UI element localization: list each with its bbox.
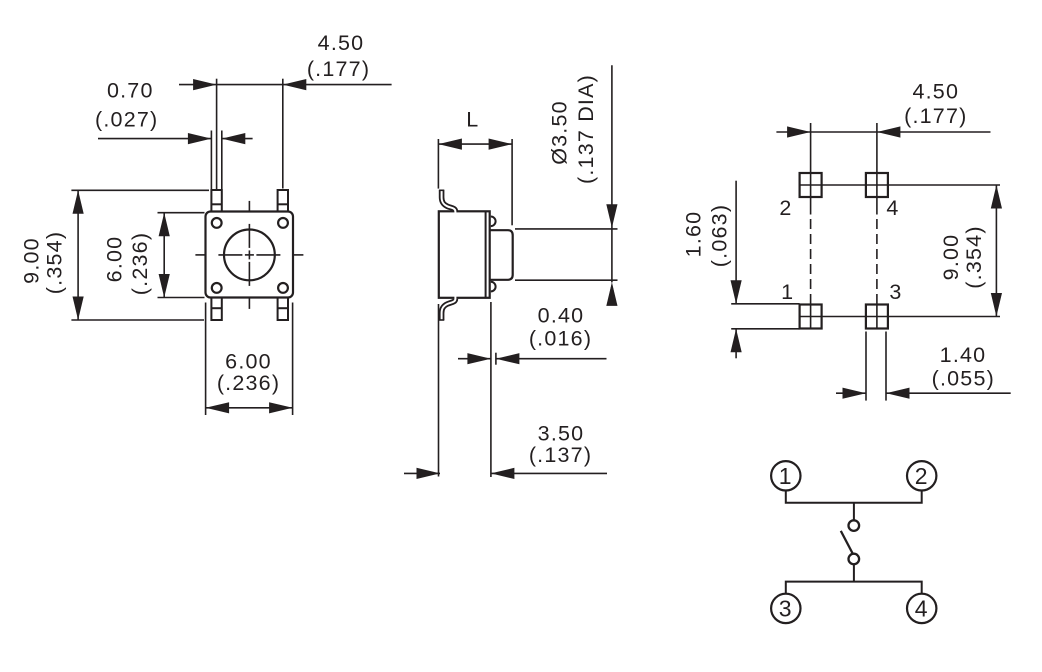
svg-text:(.137): (.137)	[529, 443, 592, 467]
svg-text:4: 4	[915, 596, 929, 622]
svg-text:3.50: 3.50	[538, 422, 585, 446]
svg-text:3: 3	[779, 596, 793, 622]
svg-text:(.236): (.236)	[128, 232, 152, 295]
svg-text:0.40: 0.40	[538, 304, 585, 328]
svg-text:1.60: 1.60	[682, 211, 706, 258]
svg-text:(.354): (.354)	[43, 231, 67, 294]
svg-text:Ø3.50: Ø3.50	[548, 100, 572, 165]
svg-text:1: 1	[779, 463, 793, 489]
svg-text:(.055): (.055)	[932, 367, 995, 391]
svg-text:1: 1	[781, 280, 794, 304]
svg-text:1.40: 1.40	[940, 343, 987, 367]
svg-text:L: L	[466, 107, 479, 131]
svg-text:(.137 DIA): (.137 DIA)	[574, 74, 598, 184]
svg-text:(.016): (.016)	[529, 327, 592, 351]
svg-text:6.00: 6.00	[225, 350, 272, 374]
svg-text:0.70: 0.70	[107, 79, 154, 103]
svg-text:(.063): (.063)	[708, 204, 732, 267]
svg-text:4.50: 4.50	[318, 31, 365, 55]
svg-text:4.50: 4.50	[912, 80, 959, 104]
svg-text:(.177): (.177)	[904, 104, 967, 128]
svg-text:2: 2	[779, 196, 792, 220]
svg-text:2: 2	[915, 463, 929, 489]
svg-text:3: 3	[889, 280, 902, 304]
svg-text:(.027): (.027)	[95, 108, 158, 132]
svg-text:4: 4	[886, 196, 899, 220]
svg-text:9.00: 9.00	[939, 234, 963, 281]
svg-text:(.177): (.177)	[307, 57, 370, 81]
svg-text:(.354): (.354)	[962, 225, 986, 288]
svg-text:(.236): (.236)	[217, 371, 280, 395]
svg-text:9.00: 9.00	[20, 237, 44, 284]
svg-text:6.00: 6.00	[103, 236, 127, 283]
